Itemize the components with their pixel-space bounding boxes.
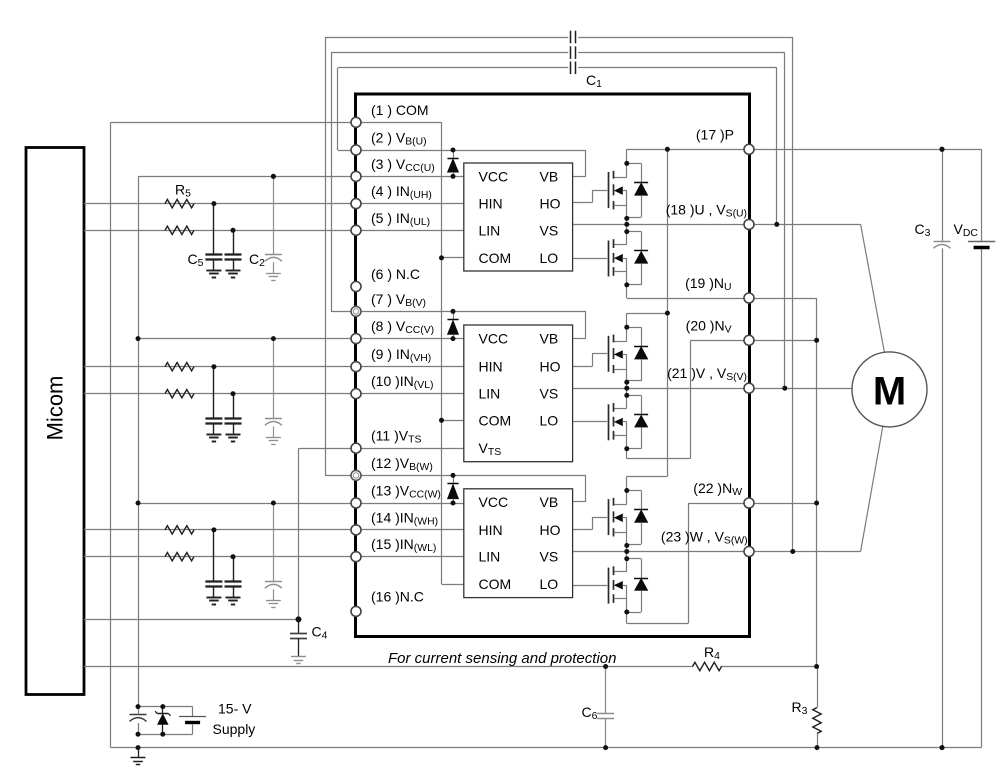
svg-text:LIN: LIN — [479, 549, 501, 565]
svg-text:(6 ) N.C: (6 ) N.C — [371, 266, 420, 282]
svg-text:VB: VB — [540, 494, 559, 510]
svg-text:HO: HO — [540, 522, 561, 538]
svg-text:VCC: VCC — [479, 494, 509, 510]
svg-text:COM: COM — [479, 250, 512, 266]
svg-text:LO: LO — [540, 412, 559, 428]
svg-text:HIN: HIN — [479, 359, 503, 375]
svg-text:(16 )N.C: (16 )N.C — [371, 588, 424, 604]
svg-text:LIN: LIN — [479, 222, 501, 238]
svg-text:15- V: 15- V — [218, 701, 252, 717]
svg-text:LIN: LIN — [479, 386, 501, 402]
svg-text:Micom: Micom — [43, 376, 68, 441]
svg-text:HO: HO — [540, 196, 561, 212]
svg-text:HIN: HIN — [479, 522, 503, 538]
svg-text:LO: LO — [540, 250, 559, 266]
svg-text:VS: VS — [540, 386, 559, 402]
svg-text:COM: COM — [479, 576, 512, 592]
svg-text:VCC: VCC — [479, 331, 509, 347]
svg-text:(17 )P: (17 )P — [696, 126, 734, 142]
svg-text:For current sensing and protec: For current sensing and protection — [388, 650, 616, 667]
svg-text:(1 ) COM: (1 ) COM — [371, 102, 429, 118]
svg-text:Supply: Supply — [213, 721, 256, 737]
svg-text:COM: COM — [479, 412, 512, 428]
svg-text:HIN: HIN — [479, 196, 503, 212]
svg-text:VS: VS — [540, 549, 559, 565]
svg-text:VB: VB — [540, 168, 559, 184]
svg-text:VS: VS — [540, 222, 559, 238]
svg-text:VCC: VCC — [479, 168, 509, 184]
svg-text:VB: VB — [540, 331, 559, 347]
svg-text:LO: LO — [540, 576, 559, 592]
svg-text:M: M — [873, 369, 906, 413]
svg-text:HO: HO — [540, 359, 561, 375]
